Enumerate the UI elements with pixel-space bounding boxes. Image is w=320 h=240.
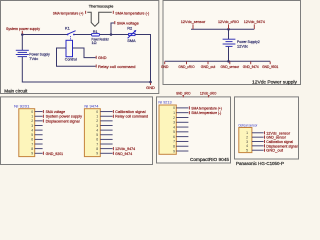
- svg-text:GND_9474: GND_9474: [243, 64, 259, 69]
- sheet box Main circuit: [1, 1, 159, 94]
- svg-text:0: 0: [96, 110, 98, 114]
- sheet box cRIO modules left: [1, 97, 153, 165]
- svg-text:Control: Control: [65, 56, 77, 61]
- svg-text:R2: R2: [127, 26, 132, 31]
- port SMA temperature (-) (NI 9213 pin 1): [188, 111, 190, 114]
- svg-text:Thermocouple: Thermocouple: [89, 4, 114, 9]
- NI 9474 pin stubs: [100, 112, 112, 154]
- port Relay coil command (NI 9474 pin 1): [112, 115, 114, 118]
- svg-text:2: 2: [96, 119, 98, 123]
- svg-text:Optical sensor: Optical sensor: [238, 123, 258, 128]
- power port GND_out: [207, 62, 209, 65]
- svg-text:9: 9: [173, 149, 175, 153]
- port SMA voltage: [114, 21, 116, 24]
- svg-text:1: 1: [31, 115, 33, 119]
- svg-text:8: 8: [96, 147, 98, 151]
- junction node bottom right: [149, 81, 152, 84]
- port GND_sensor (Optical sensor pin 2): [264, 136, 266, 139]
- svg-text:NI 9213: NI 9213: [158, 100, 171, 105]
- wire battery2 top: [228, 29, 230, 39]
- svg-text:12Vdc_9474: 12Vdc_9474: [244, 19, 266, 24]
- svg-text:GND_out: GND_out: [266, 148, 284, 153]
- svg-text:0: 0: [173, 106, 175, 110]
- svg-text:9: 9: [96, 152, 98, 156]
- svg-text:NI 9201: NI 9201: [14, 103, 30, 108]
- wire R2 to corner down: [135, 35, 150, 83]
- svg-text:4: 4: [173, 125, 175, 129]
- svg-text:12Vdc_sensor: 12Vdc_sensor: [181, 19, 206, 24]
- Optical sensor pin stubs: [252, 133, 264, 150]
- svg-text:3: 3: [173, 121, 175, 125]
- svg-text:5: 5: [31, 133, 33, 137]
- svg-text:8: 8: [173, 145, 175, 149]
- svg-text:CompactRIO 9045: CompactRIO 9045: [190, 157, 229, 162]
- port GND control: [95, 56, 97, 59]
- svg-text:8: 8: [31, 147, 33, 151]
- svg-text:SMA temperature (+): SMA temperature (+): [53, 11, 84, 16]
- svg-text:12Vdc_cRIO: 12Vdc_cRIO: [218, 19, 239, 24]
- svg-text:6: 6: [173, 135, 175, 139]
- svg-text:1: 1: [173, 111, 175, 115]
- svg-text:6: 6: [31, 138, 33, 142]
- NI 9201 pin stubs: [35, 112, 43, 154]
- svg-text:GND_9501: GND_9501: [262, 64, 278, 69]
- port GND_9201 (NI 9201 pin 9): [42, 152, 44, 155]
- junction battery2 top: [227, 28, 230, 31]
- svg-text:1: 1: [96, 115, 98, 119]
- svg-text:K1: K1: [65, 25, 70, 30]
- wire top rail PSU: [191, 28, 254, 30]
- svg-text:SMA temperature (-): SMA temperature (-): [191, 110, 222, 115]
- wire left drop to battery: [21, 35, 23, 51]
- port Displacement signal (Optical sensor pin 4): [264, 144, 266, 147]
- svg-text:1Ω: 1Ω: [92, 40, 97, 45]
- svg-text:GND_9474: GND_9474: [115, 151, 133, 156]
- svg-text:7: 7: [96, 142, 98, 146]
- svg-text:7: 7: [173, 140, 175, 144]
- ground GND main: [150, 83, 152, 85]
- sheet box CompactRIO 9045: [157, 97, 231, 163]
- sheet box 12Vdc Power supply: [163, 1, 301, 85]
- port 12Vdc_9474 (NI 9474 pin 8): [112, 147, 114, 150]
- wire top rail supply to K1: [22, 34, 67, 36]
- svg-text:Panasonic HG-C1050-P: Panasonic HG-C1050-P: [236, 161, 284, 166]
- NI 9201 pin numbers: [31, 110, 33, 156]
- wire R1 to R2: [100, 34, 129, 36]
- svg-text:12Vdc_cRIO: 12Vdc_cRIO: [200, 91, 216, 96]
- svg-text:4: 4: [31, 128, 33, 132]
- port SMA temperature (-): [112, 11, 114, 14]
- power port GND_9474: [250, 62, 252, 65]
- svg-text:7: 7: [31, 142, 33, 146]
- power port GND_sensor: [229, 62, 231, 65]
- wire SMA voltage branch: [111, 23, 114, 35]
- port GND_out (Optical sensor pin 5): [264, 149, 266, 152]
- svg-text:SMA temperature (-): SMA temperature (-): [115, 11, 150, 16]
- junction node A: [21, 33, 24, 36]
- svg-text:GND_cRIO: GND_cRIO: [176, 91, 191, 96]
- wire battery to bottom rail: [22, 57, 150, 82]
- svg-text:5: 5: [173, 130, 175, 134]
- battery BT2: [223, 39, 236, 46]
- wire bottom rail PSU: [165, 60, 271, 62]
- port Calibration signal (NI 9474 pin 0): [112, 110, 114, 113]
- svg-text:6: 6: [96, 138, 98, 142]
- power port GND_cRIO: [186, 62, 188, 65]
- port System power supply (NI 9201 pin 1): [42, 115, 44, 118]
- junction node R1-R2: [110, 33, 113, 36]
- svg-text:12Vdc Power supply: 12Vdc Power supply: [252, 79, 298, 84]
- svg-text:12Vdc: 12Vdc: [237, 44, 248, 49]
- svg-text:4: 4: [96, 128, 98, 132]
- svg-text:7Vdc: 7Vdc: [29, 56, 38, 61]
- svg-text:GND_out: GND_out: [201, 64, 216, 69]
- svg-text:GND: GND: [98, 55, 107, 60]
- port GND_9474 (NI 9474 pin 9): [112, 152, 114, 155]
- wire K1 to R1: [75, 34, 92, 36]
- svg-text:2: 2: [31, 119, 33, 123]
- NI 9213 pin numbers: [173, 106, 175, 153]
- port Displacement signal (NI 9201 pin 2): [42, 119, 44, 122]
- relay linkage dashed: [70, 36, 72, 40]
- battery BT1: [16, 50, 29, 56]
- junction battery2 bottom: [227, 60, 230, 63]
- svg-text:GND_9201: GND_9201: [46, 151, 64, 156]
- svg-text:2: 2: [173, 116, 175, 120]
- svg-text:System power supply: System power supply: [6, 26, 40, 31]
- svg-text:3: 3: [96, 124, 98, 128]
- svg-text:3: 3: [31, 124, 33, 128]
- sheet box Panasonic HG-C1050-P: [235, 97, 299, 159]
- port SMA temperature (+) (NI 9213 pin 0): [188, 106, 190, 109]
- Optical sensor pin numbers: [246, 131, 248, 152]
- wire control right pin: [73, 48, 96, 58]
- wire battery2 bottom: [228, 47, 230, 62]
- svg-text:SMA: SMA: [127, 38, 136, 43]
- port 12Vdc_sensor (Optical sensor pin 1): [264, 131, 266, 134]
- port SMA voltage (NI 9201 pin 0): [42, 110, 44, 113]
- svg-text:GND_cRIO: GND_cRIO: [178, 64, 194, 69]
- svg-text:Displacement signal: Displacement signal: [46, 118, 80, 123]
- svg-text:Relay coil command: Relay coil command: [115, 114, 148, 119]
- svg-text:9: 9: [31, 152, 33, 156]
- NI 9213 pin stubs: [176, 108, 188, 151]
- thermocouple: [87, 12, 112, 26]
- power port GND_9501: [269, 62, 271, 65]
- port Calibration signal (Optical sensor pin 3): [264, 140, 266, 143]
- svg-text:5: 5: [246, 149, 248, 153]
- port Relay coil command: [95, 65, 97, 68]
- control block: [66, 40, 73, 56]
- svg-text:GND_sensor: GND_sensor: [221, 64, 240, 69]
- svg-text:Relay coil command: Relay coil command: [98, 64, 136, 69]
- svg-text:5: 5: [96, 133, 98, 137]
- wire control left pin loop: [57, 48, 96, 66]
- svg-text:0: 0: [31, 110, 33, 114]
- power port GND: [164, 62, 166, 65]
- svg-text:GND: GND: [161, 64, 169, 69]
- svg-text:NI 9474: NI 9474: [84, 103, 99, 108]
- svg-text:Main circuit: Main circuit: [4, 88, 28, 93]
- svg-text:GND: GND: [146, 86, 155, 90]
- NI 9474 pin numbers: [96, 110, 98, 156]
